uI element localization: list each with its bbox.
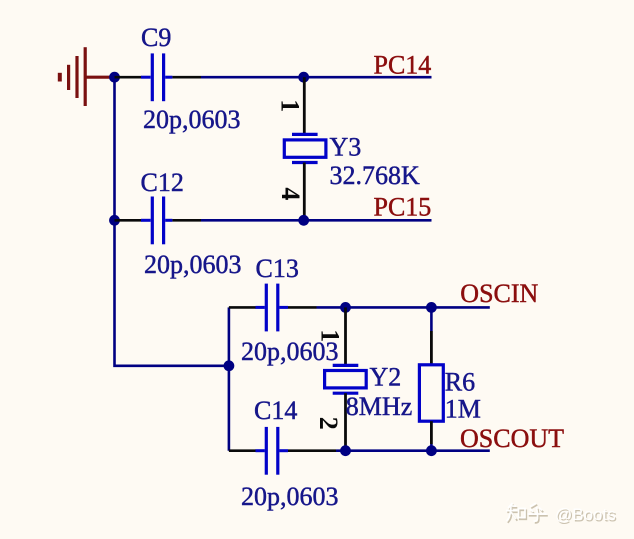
watermark	[506, 503, 617, 526]
resistor R6 pin bottom	[430, 421, 433, 451]
capacitor C9	[141, 53, 172, 101]
capacitor C12 pin black right	[172, 219, 201, 222]
wire OSCOUT	[336, 449, 490, 452]
node C	[298, 72, 309, 83]
svg-text:C9: C9	[141, 23, 171, 52]
svg-text:OSCOUT: OSCOUT	[460, 424, 564, 453]
svg-text:PC15: PC15	[374, 193, 432, 222]
svg-text:C14: C14	[254, 396, 297, 425]
capacitor C14 pin black right	[288, 449, 336, 452]
resistor R6	[419, 365, 443, 421]
svg-text:PC14: PC14	[374, 51, 432, 80]
node A	[109, 72, 120, 83]
node F	[426, 302, 437, 313]
svg-text:1M: 1M	[445, 395, 481, 424]
crystal Y3 pin 4	[303, 163, 306, 221]
svg-text:R6: R6	[445, 367, 475, 396]
capacitor C13 pin black left	[229, 306, 256, 309]
svg-text:4: 4	[276, 187, 305, 200]
capacitor C14 pin black left	[229, 449, 256, 452]
wire G up to C13 row	[228, 307, 231, 365]
capacitor C13	[256, 284, 289, 332]
node B	[109, 215, 120, 226]
svg-text:1: 1	[316, 329, 345, 342]
crystal Y3	[284, 134, 326, 162]
node H	[340, 445, 351, 456]
crystal Y3 pin 1	[303, 77, 306, 134]
svg-text:C12: C12	[141, 168, 184, 197]
svg-text:Y2: Y2	[370, 362, 402, 391]
wire OSCIN	[317, 306, 490, 309]
capacitor C12	[141, 197, 172, 245]
wire PC14	[201, 76, 432, 79]
wire PC15	[201, 219, 432, 222]
capacitor C9 pin black right	[172, 76, 201, 79]
node D	[298, 215, 309, 226]
svg-text:2: 2	[314, 417, 343, 430]
wire G down to C14 row	[228, 366, 231, 451]
svg-text:8MHz: 8MHz	[346, 392, 412, 421]
capacitor C9 pin black left	[115, 76, 142, 79]
capacitor C13 pin black right	[288, 306, 317, 309]
ground	[60, 47, 112, 106]
crystal Y2 pin 1	[344, 307, 347, 365]
svg-text:1: 1	[276, 99, 305, 112]
capacitor C12 pin black left	[115, 219, 142, 222]
crystal Y2	[325, 365, 367, 393]
node E	[340, 302, 351, 313]
capacitor C14	[256, 427, 289, 475]
node I	[426, 445, 437, 456]
svg-text:20p,0603: 20p,0603	[241, 482, 339, 511]
svg-text:Y3: Y3	[330, 132, 362, 161]
resistor R6 pin top	[430, 307, 433, 364]
crystal Y2 pin 2	[344, 393, 347, 451]
svg-text:20p,0603: 20p,0603	[143, 105, 241, 134]
svg-text:32.768K: 32.768K	[330, 161, 421, 190]
svg-text:C13: C13	[256, 254, 299, 283]
wire A-B-G vertical left	[115, 77, 229, 366]
node G	[224, 360, 235, 371]
svg-text:@Boots: @Boots	[555, 505, 616, 524]
svg-text:OSCIN: OSCIN	[460, 279, 538, 308]
svg-text:20p,0603: 20p,0603	[144, 250, 242, 279]
